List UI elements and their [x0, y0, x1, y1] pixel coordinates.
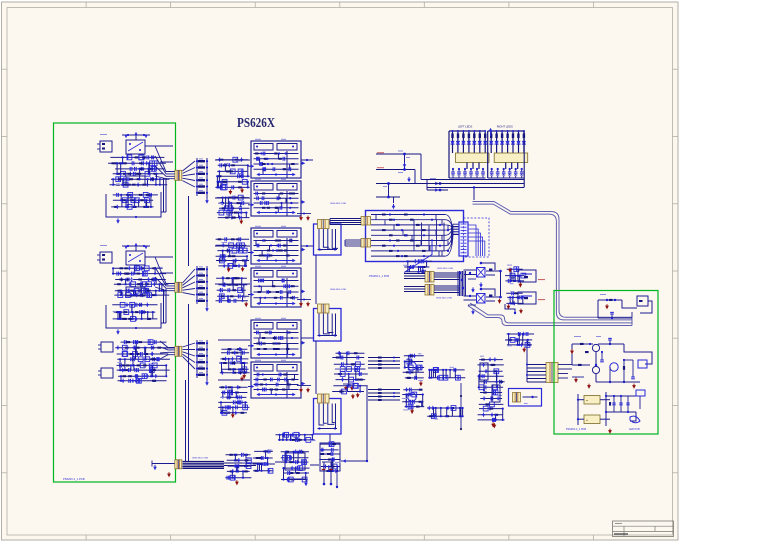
aux parts near T9	[506, 332, 535, 353]
bright link	[404, 242, 432, 273]
transformer T7	[425, 272, 434, 283]
T2 secondary fan	[183, 269, 196, 295]
isolation box BB3	[314, 394, 342, 434]
connector J1	[459, 222, 468, 256]
T8 bus wires	[404, 286, 460, 293]
LED bottom bus	[427, 180, 524, 188]
net label bus upper	[437, 268, 454, 270]
vertical trunk wire B	[188, 304, 190, 462]
opto feed cluster	[403, 259, 432, 274]
chain cluster C2	[253, 449, 276, 473]
stub bus upper	[368, 357, 400, 370]
stub bus lower	[368, 389, 400, 402]
bottom thin bus	[224, 463, 256, 466]
right array right rail	[523, 131, 525, 188]
block link wires	[215, 159, 313, 380]
amp cluster RA	[505, 265, 545, 288]
T10 left stub	[152, 461, 175, 471]
chain cluster C1	[225, 453, 251, 486]
T5 bus	[330, 219, 361, 225]
transformer T5	[361, 217, 371, 226]
cluster right of BB3	[332, 351, 368, 399]
svg-text:SMIS-BUS LINE: SMIS-BUS LINE	[436, 298, 453, 300]
south path	[505, 304, 516, 314]
mid cluster M3	[216, 237, 250, 272]
T1 secondary fan	[183, 161, 196, 187]
right LED array	[488, 125, 528, 179]
svg-text:SMIS-BUS LINE: SMIS-BUS LINE	[330, 203, 347, 205]
transformer T2	[175, 282, 182, 292]
svg-text:▬: ▬	[586, 400, 588, 402]
svg-text:PS626X: PS626X	[237, 115, 275, 130]
BB vertical link 2	[315, 341, 317, 394]
amp cluster RB	[506, 291, 545, 314]
transformer T6	[361, 239, 371, 248]
title block	[613, 521, 674, 537]
T9 right stubs	[558, 365, 568, 379]
net label above BB2	[330, 289, 347, 291]
svg-text:SMIS-BUS LINE: SMIS-BUS LINE	[437, 268, 454, 270]
svg-text:RIGHT LEDS: RIGHT LEDS	[497, 125, 513, 129]
T3 primary fan	[160, 341, 175, 359]
mid cluster M2	[217, 195, 250, 224]
net label bus lower	[436, 298, 453, 300]
right box label right	[629, 428, 640, 431]
svg-text:SMIS-BUS LINE: SMIS-BUS LINE	[192, 458, 209, 460]
chain cluster C4	[319, 442, 340, 474]
mid cluster M4	[216, 276, 250, 307]
T6 bus	[345, 240, 361, 246]
out cluster R3	[577, 390, 645, 434]
bottom bus label	[192, 458, 209, 460]
T3 secondary fan	[183, 343, 196, 369]
power flags near BB2	[297, 299, 311, 307]
converter cluster PS1	[97, 132, 173, 224]
net label above BB1	[330, 203, 347, 205]
opto IC B	[464, 288, 501, 303]
chain tail wires	[289, 459, 346, 488]
svg-text:LEFT LEDS: LEFT LEDS	[458, 125, 472, 129]
sheet title PS626X	[237, 115, 275, 130]
relay K1	[584, 396, 600, 405]
driver block U2	[248, 179, 305, 216]
driver block U5	[248, 318, 305, 358]
out cluster R2	[570, 336, 652, 389]
left box label PS626X-1_1 PCB	[63, 477, 85, 481]
power flag T10	[167, 472, 171, 477]
bundle end hook	[631, 312, 633, 326]
mid cluster M5	[219, 347, 250, 382]
left LED array	[449, 125, 489, 179]
driver block U1	[248, 139, 305, 178]
vertical trunk wire C	[185, 380, 187, 462]
bottom bus	[183, 462, 225, 469]
BB vertical link 1	[315, 255, 317, 304]
connector loops	[469, 225, 485, 256]
opto arrows	[468, 269, 492, 315]
converter cluster PS2	[97, 243, 173, 335]
power flags right of BB3	[343, 384, 355, 391]
relay K2	[584, 415, 600, 424]
secondary comb K1	[196, 158, 209, 204]
sub-board wiring	[371, 213, 459, 257]
driver cluster C	[478, 356, 505, 429]
mid cluster M1	[215, 157, 249, 195]
sub-board label	[369, 275, 389, 278]
junction dots dark	[460, 383, 462, 430]
bus bundle A	[473, 202, 633, 320]
driver block U6	[248, 360, 305, 398]
transformer T10	[175, 460, 182, 469]
amp circuit B	[402, 388, 424, 415]
green outline box right	[554, 291, 658, 435]
ladder cluster	[376, 151, 448, 210]
svg-text:▬: ▬	[586, 420, 588, 422]
multiwinding transformer T9	[546, 363, 558, 383]
power flags near BB3	[297, 386, 311, 393]
T7 bus wires	[404, 273, 460, 280]
connector dashed zone	[464, 218, 490, 257]
res chain B	[427, 406, 464, 420]
bus collector verticals	[458, 271, 466, 296]
green outline box left	[54, 123, 176, 482]
vertical trunk wire A	[188, 196, 190, 266]
T1 primary fan	[155, 146, 175, 179]
mid vertical link	[498, 270, 502, 304]
chain cluster C3	[281, 450, 310, 482]
secondary comb K2	[196, 266, 209, 312]
amp circuit A	[403, 353, 424, 386]
T2 primary fan	[155, 257, 175, 291]
svg-text:LED PCB: LED PCB	[629, 428, 640, 431]
driver block U4	[248, 266, 305, 307]
res chain A	[428, 367, 465, 380]
chain link wires	[252, 385, 368, 465]
svg-text:SMIS-BUS LINE: SMIS-BUS LINE	[330, 289, 347, 291]
net arrow up	[489, 128, 493, 136]
svg-text:PS626X-2_1 PCB: PS626X-2_1 PCB	[566, 428, 586, 431]
driver block U3	[248, 226, 305, 264]
transformer T3	[175, 346, 182, 356]
right box label left	[566, 428, 586, 431]
secondary comb K3	[196, 340, 209, 386]
opto IC A	[464, 262, 501, 277]
svg-text:PS626X-1_1 PCB: PS626X-1_1 PCB	[63, 477, 85, 481]
out cluster R1	[598, 294, 652, 319]
chain top row	[276, 432, 316, 442]
sense box	[509, 389, 542, 407]
T9 to R2 wires	[568, 365, 572, 370]
isolation box BB1	[314, 220, 342, 256]
transformer T1	[175, 170, 182, 180]
svg-text:▬▬: ▬▬	[524, 403, 528, 405]
LED bus drop	[473, 186, 475, 200]
power flags near BB1	[297, 213, 311, 221]
T9 fan wires	[505, 340, 546, 382]
converter cluster PS3	[98, 340, 175, 384]
svg-text:PS626X-1_1 PCB: PS626X-1_1 PCB	[369, 275, 389, 278]
bus bundle B	[468, 303, 632, 326]
sub-board outline	[366, 211, 464, 262]
mid cluster M6	[218, 385, 249, 418]
transformer T8	[425, 285, 434, 296]
isolation box BB2	[314, 304, 342, 341]
